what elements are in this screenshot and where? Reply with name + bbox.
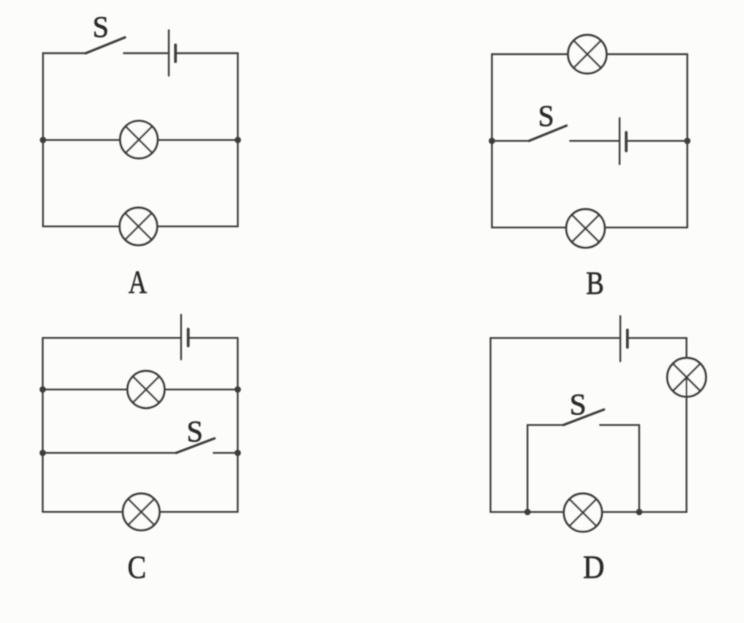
svg-text:S: S	[570, 387, 587, 421]
lamp L1 (B top)	[568, 35, 607, 74]
wire: C left edge	[42, 338, 44, 512]
junction dot B-left	[489, 138, 495, 144]
switch S (B) lever	[529, 126, 567, 141]
wire: C switch branch left segment	[43, 452, 177, 454]
wire: B middle segment battery to right	[626, 140, 687, 142]
junction dot A-right	[235, 137, 241, 143]
wire: B middle segment left of switch	[492, 140, 529, 142]
lamp L2 (D bottom)	[564, 493, 602, 531]
svg-text:S: S	[93, 9, 109, 44]
battery (D)	[620, 316, 627, 361]
wire: D inner top segment left of switch	[528, 424, 564, 426]
junction dot C-right-lower	[235, 450, 241, 456]
junction dot D-right	[636, 509, 642, 515]
svg-text:D: D	[583, 549, 604, 586]
lamp L1 (C second row)	[127, 371, 164, 408]
battery (B)	[620, 118, 627, 164]
wire: B bottom branch	[492, 227, 687, 229]
svg-text:S: S	[187, 414, 203, 449]
junction dot B-right	[684, 138, 690, 144]
wire: C second branch	[43, 389, 238, 391]
switch S (C) lever	[176, 438, 214, 453]
wire: D inner top segment right of switch	[600, 424, 639, 426]
wire: A left edge	[42, 53, 44, 226]
wire: C right edge	[237, 338, 239, 512]
lamp L2 (B bottom)	[566, 209, 605, 248]
junction dot D-left	[524, 509, 530, 515]
wire: B top branch	[492, 53, 687, 55]
switch S (D) lever	[563, 410, 604, 426]
junction dot C-left-upper	[40, 386, 46, 392]
wire: A top segment left of switch	[43, 52, 86, 54]
wire: D bottom branch	[491, 511, 687, 513]
wire: D inner left stub	[527, 425, 529, 512]
wire: D left edge	[490, 338, 492, 512]
junction dot C-right-upper	[235, 386, 241, 392]
wire: D inner right stub	[638, 425, 640, 512]
wire: D right edge upper	[686, 338, 688, 377]
junction dot C-left-lower	[40, 450, 46, 456]
wire: C switch branch right segment	[214, 452, 238, 454]
wire: A bottom branch	[43, 225, 238, 227]
wire: D right edge lower	[686, 377, 688, 512]
wire: B middle segment switch to battery	[570, 140, 620, 142]
wire: D top segment left of battery	[491, 337, 621, 339]
wire: A middle branch	[43, 139, 238, 141]
wire: B right edge	[686, 54, 688, 227]
svg-text:C: C	[128, 549, 147, 586]
battery (A)	[169, 30, 176, 76]
junction dot A-left	[40, 137, 46, 143]
lamp L1 (D right edge)	[667, 358, 706, 397]
wire: D top segment battery to corner	[627, 337, 686, 339]
wire: C bottom branch	[43, 511, 238, 513]
wire: C top segment left of battery	[43, 337, 181, 339]
svg-text:S: S	[538, 99, 554, 133]
svg-text:A: A	[128, 265, 147, 301]
battery (C)	[181, 315, 188, 360]
lamp L2 (A bottom)	[120, 208, 158, 246]
switch S (A) lever	[86, 37, 125, 53]
wire: A top segment battery to corner	[176, 52, 238, 54]
wire: B left edge	[491, 54, 493, 227]
wire: A top segment switch to battery	[124, 52, 169, 54]
wire: C top segment battery to corner	[188, 337, 238, 339]
svg-text:B: B	[586, 264, 604, 301]
lamp L2 (C bottom)	[123, 494, 160, 531]
wire: A right edge	[237, 53, 239, 226]
lamp L1 (A middle)	[120, 121, 158, 159]
